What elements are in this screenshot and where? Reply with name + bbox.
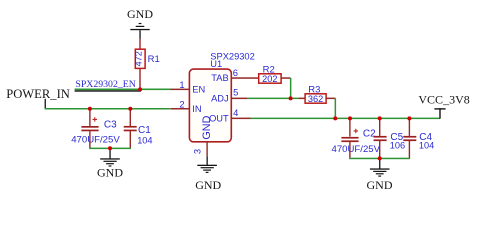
- svg-text:C2: C2: [363, 128, 376, 139]
- power port VCC_3V8: [418, 92, 469, 118]
- junction R3 / OUT rail: [333, 116, 337, 120]
- wire IN net: [45, 108, 171, 110]
- junction C1 on IN wire: [128, 107, 132, 111]
- junction C5 on OUT rail: [378, 116, 382, 120]
- wire R2 to ADJ node: [290, 78, 292, 99]
- resistor R1 (472): [134, 39, 160, 89]
- power port GND (top, above R1): [127, 7, 153, 39]
- svg-text:ADJ: ADJ: [211, 94, 229, 104]
- svg-text:GND: GND: [195, 178, 221, 192]
- wire right ground rail: [349, 158, 410, 160]
- svg-text:R1: R1: [148, 54, 160, 65]
- power port GND (right bottom): [367, 158, 393, 191]
- svg-text:5: 5: [233, 87, 238, 98]
- wire EN pin segment: [141, 89, 171, 91]
- wire left ground rail: [89, 148, 131, 150]
- pin 4 (OUT): [231, 118, 250, 120]
- svg-text:GND: GND: [201, 115, 213, 139]
- capacitor C4 (104): [403, 118, 434, 158]
- svg-text:470UF/25V: 470UF/25V: [71, 134, 120, 145]
- pin 5 (ADJ): [231, 98, 247, 100]
- svg-text:C3: C3: [104, 120, 117, 131]
- capacitor C3 (470UF/25V polarized): [71, 109, 120, 149]
- svg-text:C1: C1: [138, 125, 151, 136]
- pin 3 (GND): [206, 142, 207, 156]
- svg-text:104: 104: [419, 141, 434, 151]
- svg-text:362: 362: [308, 94, 323, 104]
- junction C4 on OUT rail: [407, 116, 411, 120]
- junction C3 on IN wire: [88, 107, 92, 111]
- svg-text:VCC_3V8: VCC_3V8: [418, 92, 469, 106]
- svg-text:104: 104: [137, 135, 152, 145]
- pin 2 (IN): [171, 108, 190, 110]
- wire R3 to OUT rail: [335, 98, 337, 118]
- resistor R2 (202): [259, 64, 291, 84]
- wire OUT rail: [251, 118, 441, 120]
- svg-text:GND: GND: [97, 165, 123, 179]
- svg-text:POWER_IN: POWER_IN: [6, 87, 70, 101]
- junction right ground rail: [378, 156, 382, 160]
- svg-text:106: 106: [390, 141, 405, 151]
- svg-text:GND: GND: [127, 7, 153, 21]
- IC U1 SPX29302 body: [189, 52, 254, 142]
- power port GND (left bottom): [97, 148, 123, 179]
- svg-text:TAB: TAB: [211, 73, 228, 83]
- junction R1 / EN wire: [138, 87, 142, 91]
- resistor R3 (362): [299, 84, 336, 103]
- wire EN net green segment: [75, 89, 171, 91]
- wire ADJ net: [248, 98, 299, 100]
- svg-text:202: 202: [262, 74, 277, 84]
- wire EN net (label underline segment): [75, 90, 141, 92]
- svg-text:U1: U1: [210, 59, 222, 69]
- port POWER_IN: [6, 87, 70, 109]
- svg-text:IN: IN: [192, 104, 201, 114]
- pin 6 (TAB): [231, 77, 258, 79]
- junction C2 on OUT rail: [348, 116, 352, 120]
- svg-text:1: 1: [179, 79, 184, 90]
- svg-text:470UF/25V: 470UF/25V: [332, 144, 381, 155]
- svg-text:472: 472: [134, 51, 144, 66]
- power port GND (IC pin 3): [195, 156, 221, 192]
- pin 1 (EN): [171, 89, 190, 91]
- svg-text:3: 3: [192, 149, 203, 154]
- capacitor C1 (104): [124, 109, 153, 149]
- svg-text:6: 6: [233, 67, 238, 78]
- capacitor C2 (470UF/25V polarized): [332, 118, 381, 158]
- junction ADJ node: [289, 96, 293, 100]
- capacitor C5 (106): [374, 118, 406, 158]
- svg-text:2: 2: [179, 98, 184, 109]
- svg-text:GND: GND: [367, 178, 393, 192]
- svg-text:EN: EN: [192, 84, 205, 94]
- junction left ground rail: [108, 146, 112, 150]
- svg-text:4: 4: [233, 107, 238, 118]
